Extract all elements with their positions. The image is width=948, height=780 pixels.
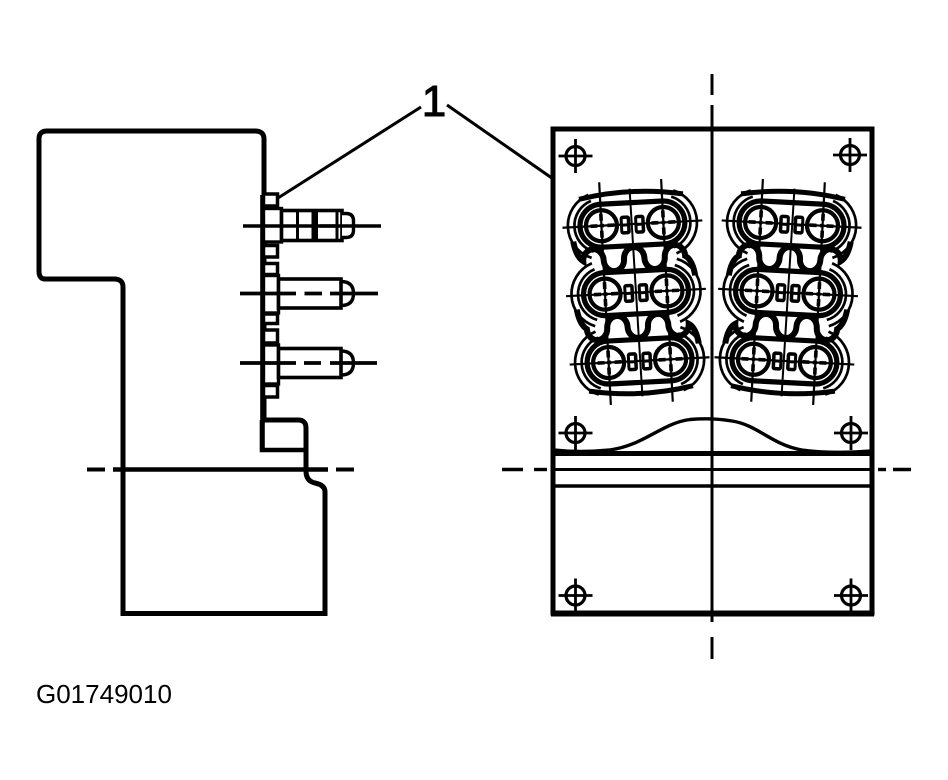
- bolt B2 boss: [264, 276, 279, 314]
- strip tooth t2: [264, 246, 278, 258]
- valve group right (mirrored): [712, 177, 863, 407]
- bolt B1 inner dash: [320, 224, 336, 227]
- bolt B3 centerline dash: [304, 361, 321, 365]
- bolt B2 centerline right: [330, 292, 378, 296]
- notch internal lines at tab: [262, 420, 306, 450]
- screw hole BL: [559, 579, 593, 613]
- block silhouette: [39, 131, 325, 614]
- bolt B3 dome: [341, 351, 354, 375]
- plate outline: [553, 129, 872, 613]
- screw hole TL: [559, 139, 593, 173]
- bolt B2 dome: [341, 282, 354, 306]
- bolt B1 centerline: [243, 224, 381, 228]
- plate lower line: [553, 484, 872, 487]
- strip tooth t5: [264, 330, 278, 343]
- bolt B1 boss: [264, 209, 282, 243]
- horizontal centerline dashes left: [502, 468, 523, 471]
- top arch: [579, 189, 683, 199]
- row 3: [568, 326, 711, 396]
- row 1: [561, 189, 704, 259]
- bolt B1 thread band: [312, 212, 319, 239]
- screw hole TR: [833, 138, 867, 172]
- serpentine 1-2: [573, 235, 695, 281]
- bolt B1 thread line a: [296, 212, 299, 239]
- screw hole BR: [834, 579, 868, 613]
- plate bump curve: [553, 419, 872, 453]
- vertical centerline main: [711, 105, 714, 622]
- flange strip vertical: [260, 195, 265, 452]
- horizontal centerline dash right1: [878, 468, 886, 471]
- bolt B3 shaft: [279, 349, 342, 378]
- bolt B2 centerline dash: [305, 292, 323, 296]
- bolt B1 end cap: [342, 214, 354, 238]
- screw hole ML: [559, 416, 593, 450]
- vertical centerline top dash: [711, 74, 714, 95]
- strip tooth t3: [264, 264, 278, 275]
- group center vertical line: [630, 189, 643, 397]
- valve group left: [560, 177, 711, 407]
- horizontal centerline across plate: [553, 468, 872, 471]
- vertical centerline bottom dash: [711, 637, 714, 659]
- bolt B3 centerline right: [330, 361, 377, 365]
- serpentine 2-3: [577, 303, 699, 349]
- column vertical lines: [599, 182, 611, 405]
- svg-text:G01749010: G01749010: [36, 679, 172, 709]
- horizontal centerline short left: [534, 468, 547, 471]
- horizontal centerline dash right2: [893, 468, 911, 471]
- bolt B2 centerline: [240, 292, 296, 296]
- bolt B1 shaft: [282, 211, 343, 241]
- leader to right view: [447, 105, 592, 206]
- strip tooth t1: [264, 194, 278, 206]
- bolt B2 shaft: [279, 279, 342, 308]
- left view horizontal centerline solid: [113, 467, 328, 472]
- bolt B1 thread line b: [336, 212, 339, 239]
- plate bottom edge heavy: [551, 611, 874, 617]
- bottom arch: [589, 386, 693, 396]
- svg-text:1: 1: [422, 77, 446, 126]
- plate gasket line thick: [553, 451, 872, 456]
- left view horizontal centerline dash right: [336, 468, 354, 472]
- strip tooth t4: [264, 314, 278, 324]
- row 2: [564, 257, 707, 327]
- left view horizontal centerline dash left: [87, 468, 105, 472]
- leader to left view: [278, 107, 421, 198]
- screw hole MR: [834, 416, 868, 450]
- bolt B3 boss: [264, 345, 279, 384]
- strip tooth t6: [264, 386, 278, 398]
- bolt B3 centerline: [240, 361, 296, 365]
